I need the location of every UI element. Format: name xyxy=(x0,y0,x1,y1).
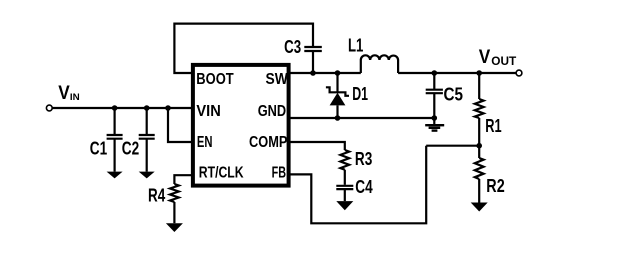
wire: RT/CLK pin to R4 xyxy=(174,175,191,184)
svg-text:L1: L1 xyxy=(348,36,363,56)
resistor R4 zigzag xyxy=(170,184,179,202)
terminal: VIN input xyxy=(46,105,52,111)
wire: R4 to ground xyxy=(173,202,175,223)
op-amp/regulator IC U1 body xyxy=(193,65,289,186)
capacitor C4 xyxy=(336,186,353,201)
diode D1 (Schottky) wires xyxy=(336,73,338,118)
svg-text:C5: C5 xyxy=(444,85,464,105)
svg-text:D1: D1 xyxy=(352,84,368,104)
junction dot: C1 tap xyxy=(112,105,118,111)
capacitor C1 xyxy=(107,108,123,172)
svg-text:COMP: COMP xyxy=(249,134,287,151)
capacitor C2 xyxy=(139,108,155,172)
svg-text:GND: GND xyxy=(258,103,286,120)
ground (earth) stub under C5 xyxy=(433,118,435,124)
resistor R1 wires xyxy=(478,73,480,146)
svg-text:IN: IN xyxy=(70,92,80,103)
diode D1 cathode bar with schottky hooks xyxy=(326,87,349,96)
ground (C4) xyxy=(336,201,353,210)
inductor L1 xyxy=(361,55,398,73)
svg-text:R2: R2 xyxy=(486,176,504,196)
ground (C1) xyxy=(107,172,123,179)
wire: EN pin connection from input rail xyxy=(168,108,191,142)
ground (C2) xyxy=(139,172,155,179)
resistor R2 wires xyxy=(478,146,480,203)
svg-text:RT/CLK: RT/CLK xyxy=(199,164,244,181)
wire: VIN input rail to IC VIN pin xyxy=(52,107,191,109)
wire: FB pin routed under to divider tap xyxy=(291,146,427,224)
svg-text:V: V xyxy=(479,47,491,68)
junction dot: C2 tap xyxy=(144,105,150,111)
ground (R4) xyxy=(166,223,183,232)
wire: BOOT pin loop up and over to C3 xyxy=(174,24,313,73)
wire: feedback divider tap to R1/R2 junction xyxy=(426,145,479,147)
capacitor C3 xyxy=(304,47,322,73)
wire: COMP pin to R3 xyxy=(291,142,345,150)
junction dot: D1 anode at ground rail xyxy=(335,115,341,121)
junction dot: C5 top at VOUT rail xyxy=(432,70,438,76)
junction dot: C5 bottom at ground rail xyxy=(432,115,438,121)
wire: L1 to VOUT terminal xyxy=(398,72,516,74)
junction dot: EN tap xyxy=(165,105,171,111)
svg-text:EN: EN xyxy=(197,134,213,151)
svg-text:SW: SW xyxy=(266,71,289,88)
svg-text:FB: FB xyxy=(272,164,286,181)
svg-text:C3: C3 xyxy=(284,37,301,57)
wire: R3 to C4 xyxy=(344,170,346,185)
diode D1 triangle xyxy=(330,93,346,106)
svg-text:R1: R1 xyxy=(485,116,501,136)
svg-text:V: V xyxy=(58,83,70,104)
svg-text:C4: C4 xyxy=(355,177,372,197)
junction dot: D1 cathode at SW node xyxy=(335,70,341,76)
terminal: VOUT output xyxy=(516,70,522,76)
svg-text:VIN: VIN xyxy=(196,103,220,120)
resistor R2 zigzag xyxy=(475,158,484,179)
svg-text:C2: C2 xyxy=(122,138,139,158)
wire: GND pin to power ground xyxy=(291,117,435,119)
svg-text:OUT: OUT xyxy=(491,54,517,68)
svg-text:R3: R3 xyxy=(355,149,372,169)
resistor R1 zigzag xyxy=(475,99,484,118)
junction dot: R1 top at VOUT rail xyxy=(476,70,482,76)
svg-text:R4: R4 xyxy=(148,186,165,206)
svg-text:BOOT: BOOT xyxy=(196,71,234,88)
svg-text:C1: C1 xyxy=(90,138,107,158)
ground (R2) xyxy=(471,203,488,212)
resistor R3 zigzag xyxy=(340,150,349,170)
capacitor C5 xyxy=(426,73,443,118)
junction dot: C3/SW node xyxy=(310,70,316,76)
junction dot: feedback divider tap xyxy=(476,143,482,149)
wire: SW pin to inductor L1 (switch node) xyxy=(291,72,361,74)
ground (earth bars under C5) xyxy=(425,124,444,132)
